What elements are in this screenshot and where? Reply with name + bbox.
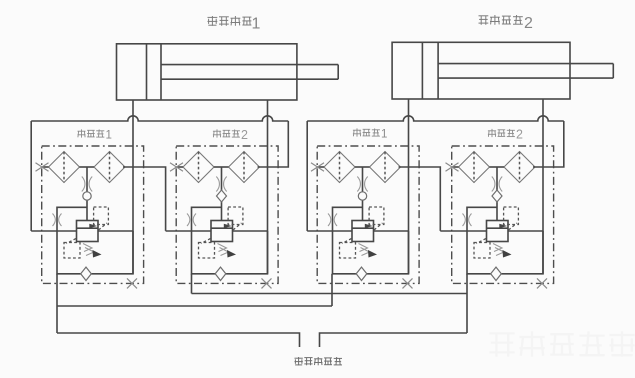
drain check diamond of 平衡阀2a <box>215 267 226 280</box>
wire: spring/drain chamber frame of 平衡阀1b <box>333 207 409 273</box>
plugged port X at left boundary of 平衡阀1a <box>36 163 49 171</box>
label 平衡阀2 (block 4) <box>488 128 523 142</box>
cylinder 大臂油缸1 rod <box>161 64 338 66</box>
plugged port X at left boundary of 平衡阀2b <box>446 163 459 171</box>
flow arrow inside valve of 平衡阀2b <box>499 224 507 229</box>
plugged port X at bottom boundary of 平衡阀1a <box>127 278 137 288</box>
node circle of 平衡阀1a <box>83 192 91 200</box>
svg-text:2: 2 <box>516 128 523 142</box>
wire: valve line of 平衡阀1a <box>31 230 76 232</box>
balance valve block 平衡阀1b enclosure (dash-dot) <box>317 146 419 283</box>
counterbalance valve square of 平衡阀2b <box>487 221 509 242</box>
orifice wavy marks of 平衡阀2b <box>492 177 495 192</box>
check valve diamond (right) of 平衡阀1b <box>370 152 401 183</box>
pilot dashed box (lower left) of 平衡阀1b <box>340 243 356 259</box>
wire: right return to multiway valve port <box>320 333 468 347</box>
cylinder 大臂油缸2 rod <box>438 63 613 65</box>
node circle of 平衡阀1b <box>358 192 366 200</box>
wire: cylinder port line into 平衡阀2b <box>542 99 544 274</box>
wire: valve spool line of 平衡阀1a <box>86 167 88 221</box>
wire: valve spool line of 平衡阀2b <box>496 167 498 221</box>
wire: block1 drain down <box>56 274 58 333</box>
orifice wavy marks of 平衡阀2a <box>216 177 219 192</box>
wire: diamond row line of 平衡阀2b <box>452 166 459 168</box>
wire: bus B to multiway valve port <box>57 333 300 347</box>
counterbalance valve square of 平衡阀1b <box>352 221 374 242</box>
svg-text:1: 1 <box>381 129 387 141</box>
check valve diamond (left) of 平衡阀2b <box>459 152 490 183</box>
wire: diamond row line of 平衡阀1b <box>318 166 325 168</box>
cylinder 大臂油缸1 piston <box>146 44 148 100</box>
drain check diamond of 平衡阀1a <box>81 267 92 280</box>
wire: cylinder port line into 平衡阀1a <box>132 100 134 274</box>
check valve diamond (right) of 平衡阀2a <box>229 152 260 183</box>
plugged port X at left boundary of 平衡阀2a <box>170 163 183 171</box>
quick-coupling wavy marks on left edge of 平衡阀1a <box>53 214 56 227</box>
wire: valve line of 平衡阀2b <box>440 230 486 232</box>
balance valve block 平衡阀2a enclosure (dash-dot) <box>176 146 278 283</box>
counterbalance valve square of 平衡阀1a <box>77 221 99 242</box>
watermark <box>489 331 634 356</box>
wire: cylinder port line into 平衡阀2a <box>267 100 269 274</box>
spring and adjust arrow of 平衡阀2a <box>218 244 227 252</box>
orifice wavy marks of 平衡阀1b <box>357 177 360 192</box>
pilot dashed box (upper right) of 平衡阀1b <box>369 207 384 225</box>
wire: spring/drain chamber frame of 平衡阀1a <box>57 207 133 273</box>
wire: valve spool line of 平衡阀1b <box>362 167 364 221</box>
wire: pilot line from 平衡阀1a to neighbour valve <box>123 167 166 231</box>
pilot dashed box (upper right) of 平衡阀2a <box>228 207 243 225</box>
wire: spring/drain chamber frame of 平衡阀2b <box>467 207 543 273</box>
cylinder 大臂油缸2 piston <box>421 42 423 99</box>
wire: group 1 left edge <box>30 121 32 231</box>
label 臂架多路阀 <box>295 357 343 365</box>
node diamond of 平衡阀2b <box>492 190 502 202</box>
check valve diamond (right) of 平衡阀2b <box>504 152 535 183</box>
wire: valve line of 平衡阀2a <box>166 230 211 232</box>
label 平衡阀2 (block 2) <box>213 128 248 142</box>
check valve diamond (left) of 平衡阀1a <box>49 152 80 183</box>
pilot dashed box (upper right) of 平衡阀2b <box>504 207 519 225</box>
flow arrow inside valve of 平衡阀1b <box>365 224 373 229</box>
wire: block4 drain down <box>466 274 468 333</box>
wire: valve spool line of 平衡阀2a <box>221 167 223 221</box>
spring and adjust arrow of 平衡阀1a <box>83 244 92 252</box>
plugged port X at bottom boundary of 平衡阀1b <box>403 278 413 288</box>
wire: cylinder port line into 平衡阀1b <box>408 99 410 274</box>
pilot dashed box (lower left) of 平衡阀2a <box>199 243 215 259</box>
wire: cross line block2-block4 <box>192 293 468 295</box>
quick-coupling wavy marks on left edge of 平衡阀2a <box>187 214 190 227</box>
wire: diamond row line of 平衡阀2b to outer corner <box>533 121 564 167</box>
drain check diamond of 平衡阀1b <box>356 267 367 280</box>
balance valve block 平衡阀1a enclosure (dash-dot) <box>42 146 144 283</box>
wire: block3 drain down <box>331 274 333 306</box>
wire: pilot line from 平衡阀1b to neighbour valve <box>399 167 441 231</box>
wire: valve line of 平衡阀1b <box>307 230 352 232</box>
label 平衡阀1 (block 3) <box>353 128 388 140</box>
quick-coupling wavy marks on left edge of 平衡阀2b <box>463 214 466 227</box>
orifice wavy marks of 平衡阀1a <box>82 177 85 192</box>
balance valve block 平衡阀2b enclosure (dash-dot) <box>452 146 554 283</box>
wire: return bus A <box>57 305 332 307</box>
cylinder 大臂油缸1 body <box>117 44 297 100</box>
check valve diamond (left) of 平衡阀2a <box>183 152 214 183</box>
wire: diamond row line of 平衡阀2a to outer corner <box>258 121 289 167</box>
plugged port X at left boundary of 平衡阀1b <box>311 163 324 171</box>
wire: group 1 top line with crossover hops <box>31 116 288 121</box>
svg-text:1: 1 <box>252 16 261 33</box>
label 大臂油缸2 <box>479 15 534 32</box>
svg-text:2: 2 <box>524 15 533 32</box>
flow arrow inside valve of 平衡阀2a <box>224 224 232 229</box>
spring and adjust arrow of 平衡阀2b <box>493 244 502 252</box>
wire: group 2 top line with crossover hops <box>307 116 564 121</box>
wire: block2 drain down <box>191 274 193 294</box>
check valve diamond (right) of 平衡阀1a <box>94 152 125 183</box>
svg-text:1: 1 <box>106 130 112 142</box>
plugged port X at bottom boundary of 平衡阀2b <box>537 278 547 288</box>
spring and adjust arrow of 平衡阀1b <box>359 244 368 252</box>
pilot dashed box (lower left) of 平衡阀1a <box>64 243 80 259</box>
wire: diamond row line of 平衡阀2a <box>177 166 184 168</box>
flow arrow inside valve of 平衡阀1a <box>89 224 97 229</box>
label 大臂油缸1 <box>208 16 261 33</box>
label 平衡阀1 (block 1) <box>78 129 112 141</box>
wire: group 2 left edge <box>306 121 308 231</box>
quick-coupling wavy marks on left edge of 平衡阀1b <box>328 214 331 227</box>
wire: diamond row line of 平衡阀1a <box>42 166 49 168</box>
check valve diamond (left) of 平衡阀1b <box>324 152 355 183</box>
pilot dashed box (upper right) of 平衡阀1a <box>94 207 109 225</box>
pilot dashed box (lower left) of 平衡阀2b <box>474 243 490 259</box>
drain check diamond of 平衡阀2b <box>491 267 502 280</box>
wire: spring/drain chamber frame of 平衡阀2a <box>192 207 268 273</box>
node diamond of 平衡阀2a <box>217 190 227 202</box>
plugged port X at bottom boundary of 平衡阀2a <box>262 278 272 288</box>
counterbalance valve square of 平衡阀2a <box>211 221 233 242</box>
svg-text:2: 2 <box>241 128 248 142</box>
cylinder 大臂油缸2 body <box>392 42 570 99</box>
